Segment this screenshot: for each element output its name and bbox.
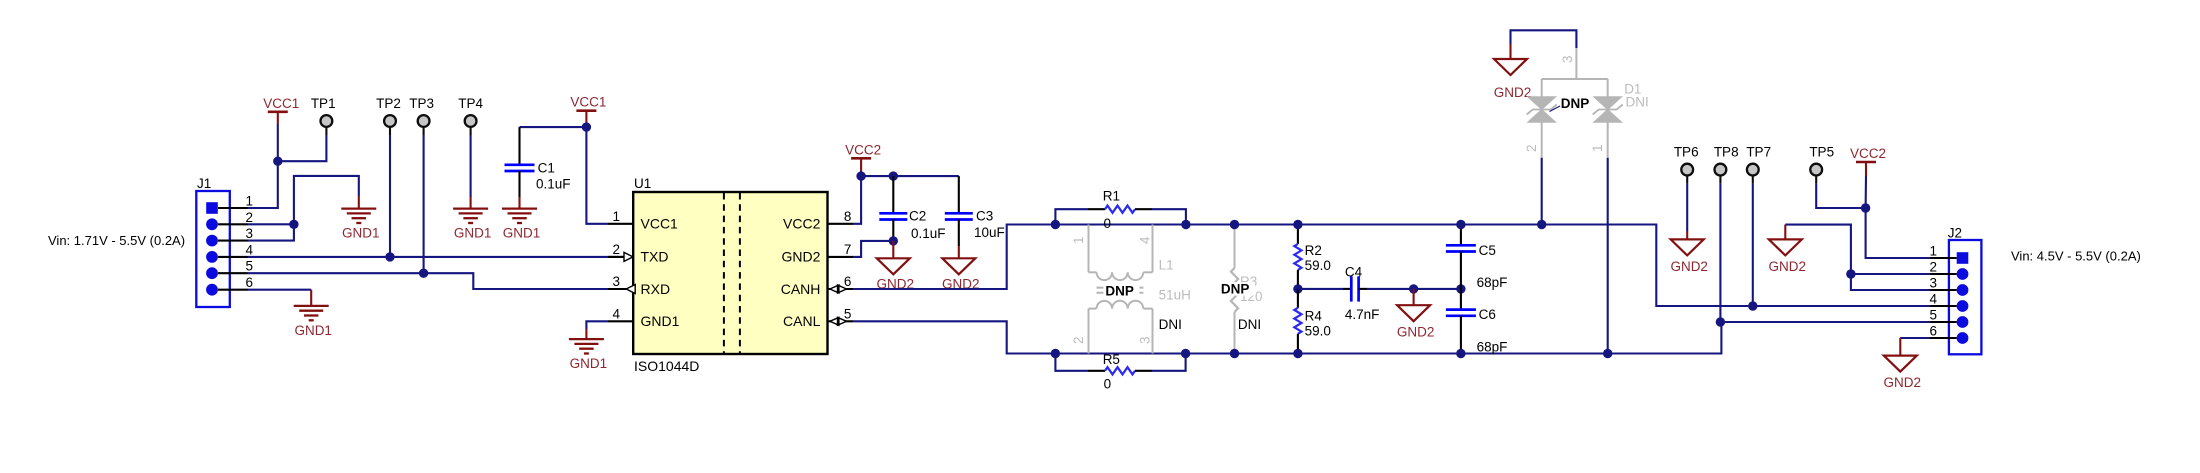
R5 right pin xyxy=(1135,370,1152,372)
D1 pin number 3 xyxy=(1560,55,1575,63)
junction C5/C6 midpoint xyxy=(1456,284,1465,293)
junction bottom rail / R5 right xyxy=(1181,349,1190,358)
U1 CANH bidir arrow xyxy=(830,285,847,293)
J2 pin number 1 xyxy=(1929,244,1937,259)
R4 bottom pin xyxy=(1297,334,1299,354)
svg-text:4: 4 xyxy=(1138,236,1153,244)
svg-text:GND1: GND1 xyxy=(342,226,380,241)
svg-text:C4: C4 xyxy=(1345,264,1363,279)
C5 top pin xyxy=(1460,225,1462,246)
R2 bottom pin xyxy=(1297,270,1299,289)
junction top rail / R1 left xyxy=(1051,220,1060,229)
R4 top pin xyxy=(1297,289,1299,308)
svg-text:59.0: 59.0 xyxy=(1305,258,1331,273)
L1 pin number 4 xyxy=(1138,236,1153,244)
GND2 stem (C2) xyxy=(892,241,894,258)
power symbol VCC1 (at C1/U1) xyxy=(576,111,596,124)
ground GND1 (C1) name xyxy=(503,226,541,241)
wire VCC2 stem down xyxy=(1865,176,1868,208)
wire TP3 down to RXD net xyxy=(423,135,425,273)
J1 pin 4 round pad xyxy=(206,251,218,263)
C2 bottom pin xyxy=(892,220,894,241)
label D1 refdes xyxy=(1624,82,1641,97)
svg-text:0.1uF: 0.1uF xyxy=(911,226,946,241)
junction split termination node xyxy=(1293,284,1302,293)
svg-text:C6: C6 xyxy=(1479,307,1496,322)
junction C2 bottom / U1 pin7 xyxy=(889,236,898,245)
svg-text:1: 1 xyxy=(1929,244,1937,259)
GND2 stem (D1) xyxy=(1509,44,1511,59)
D1 pin 1 (gray) xyxy=(1607,122,1609,158)
J1 pin number 4 xyxy=(245,242,253,257)
wire TP4 down xyxy=(470,135,472,197)
svg-text:4.7nF: 4.7nF xyxy=(1345,307,1380,322)
connector J2 body xyxy=(1949,240,1982,354)
svg-text:2: 2 xyxy=(1929,260,1937,275)
U1 pin name CANL xyxy=(783,313,821,329)
label R2 value 59.0 xyxy=(1305,258,1331,273)
label C3 refdes xyxy=(976,209,993,224)
svg-text:GND2: GND2 xyxy=(1494,85,1532,100)
wire J1 pin3 up to junction xyxy=(248,224,294,240)
svg-text:0: 0 xyxy=(1104,377,1112,392)
wire VCC2 rail to C2 xyxy=(861,175,893,177)
ground GND2 (C2) name xyxy=(877,277,915,292)
ground GND1 (J1 pin6) xyxy=(294,306,329,320)
J1 pin 2 round pad xyxy=(206,218,218,230)
svg-text:R4: R4 xyxy=(1305,309,1323,324)
wire RXD net J1.5 to U1.3 xyxy=(248,273,627,289)
wire TP6 down xyxy=(1686,184,1688,231)
svg-text:6: 6 xyxy=(844,274,852,289)
svg-text:51uH: 51uH xyxy=(1159,288,1191,303)
junction TP8 / J2 pin5 net xyxy=(1716,317,1725,326)
wire split node to C4 xyxy=(1298,288,1343,290)
GND2 stem (TP6) xyxy=(1686,231,1688,239)
label U1 part number ISO1044D xyxy=(634,358,699,374)
L1 pin number 3 xyxy=(1138,336,1153,344)
svg-text:1: 1 xyxy=(612,209,620,224)
inductor L1 common-mode choke (DNI) xyxy=(1089,225,1153,354)
label R1 refdes xyxy=(1103,189,1120,204)
ground GND2 (J2 pin6) xyxy=(1884,356,1917,372)
svg-text:GND1: GND1 xyxy=(570,356,608,371)
U1 pin name CANH xyxy=(781,281,821,297)
svg-text:GND1: GND1 xyxy=(454,226,492,241)
ground GND1 (J1 pins 2-3) name xyxy=(342,226,380,241)
ground GND2 (J2 pins 2-3) name xyxy=(1769,259,1807,274)
wire junction to J2 pin3 xyxy=(1851,274,1949,290)
J1 pin 5 stub xyxy=(218,272,248,274)
label L1 refdes xyxy=(1159,258,1174,273)
label C1 value 0.1uF xyxy=(536,176,571,191)
test point TP7 xyxy=(1747,164,1759,184)
test point TP2 name xyxy=(376,96,401,111)
junction J2 pin2 / pin3 xyxy=(1846,269,1855,278)
ground GND1 (U1) name xyxy=(570,356,608,371)
power symbol VCC1 (at C1/U1) name xyxy=(570,95,606,110)
svg-text:4: 4 xyxy=(612,306,620,321)
resistor R1 xyxy=(1105,206,1135,213)
ground GND1 (J1 pins 2-3) xyxy=(341,209,376,223)
svg-text:U1: U1 xyxy=(634,176,651,191)
svg-text:1: 1 xyxy=(1590,144,1605,152)
wire VCC1 stem to junction xyxy=(585,124,587,127)
label R4 value 59.0 xyxy=(1305,323,1331,338)
junction bottom rail / D1 xyxy=(1603,349,1612,358)
wire TXD net J1.4 to U1.2 xyxy=(248,256,627,258)
svg-text:R1: R1 xyxy=(1103,189,1120,204)
test point TP8 name xyxy=(1714,145,1739,160)
wire R5 right leg xyxy=(1152,354,1186,371)
C2 top pin xyxy=(892,176,894,213)
svg-text:J1: J1 xyxy=(197,176,211,191)
svg-text:3: 3 xyxy=(1929,276,1937,291)
test point TP3 xyxy=(418,115,430,135)
ground GND2 (D1) name xyxy=(1494,85,1532,100)
svg-text:VCC1: VCC1 xyxy=(641,216,679,232)
ground GND1 (TP4) xyxy=(453,209,488,223)
wire D1 pin3 to GND2 xyxy=(1511,30,1577,48)
power symbol VCC2 (at U1) xyxy=(851,158,871,171)
ground GND1 (C1) xyxy=(502,209,537,223)
wire top rail (CANH bus) xyxy=(1055,225,1949,307)
junction VCC1 / TP1 xyxy=(273,157,282,166)
C1 top pin xyxy=(518,127,520,165)
power symbol VCC2 (at U1) name xyxy=(845,142,881,157)
label L1 value 51uH xyxy=(1159,288,1191,303)
svg-text:3: 3 xyxy=(612,274,620,289)
svg-text:GND2: GND2 xyxy=(781,249,820,265)
svg-text:1: 1 xyxy=(1071,236,1086,244)
svg-text:DNI: DNI xyxy=(1238,317,1261,332)
op-amp U1 body (ISO1044D) xyxy=(633,192,827,354)
ground GND2 (C4 tap) xyxy=(1397,305,1430,321)
svg-text:DNP: DNP xyxy=(1221,282,1250,297)
D1 pin 2 (gray) xyxy=(1541,122,1543,158)
ground GND2 (TP6) xyxy=(1671,239,1704,255)
ground GND1 (U1) xyxy=(569,339,604,353)
J1 pin 1 square pad xyxy=(206,202,218,214)
svg-text:7: 7 xyxy=(844,242,852,257)
junction top rail / R3 xyxy=(1230,220,1239,229)
junction TP5 / VCC2 / J2 pin1 xyxy=(1861,203,1870,212)
test point TP2 xyxy=(384,115,396,135)
J2 pin 3 round pad xyxy=(1957,284,1969,296)
U1 left pin 4 stub xyxy=(608,320,633,322)
svg-text:VCC2: VCC2 xyxy=(783,216,821,232)
C4 left pin xyxy=(1343,288,1351,290)
svg-text:Vin: 1.71V - 5.5V (0.2A): Vin: 1.71V - 5.5V (0.2A) xyxy=(48,233,185,248)
svg-text:3: 3 xyxy=(245,226,253,241)
label J2 refdes xyxy=(1948,226,1962,241)
GND1 stem (C1) xyxy=(518,197,520,209)
test point TP8 xyxy=(1715,164,1727,184)
power symbol VCC2 (at J2) name xyxy=(1850,146,1886,161)
J1 pin 1 stub xyxy=(218,207,248,209)
svg-text:2: 2 xyxy=(612,242,620,257)
diode D1 left TVS pair (DNI) xyxy=(1527,97,1557,122)
label Vin input range xyxy=(48,233,185,248)
ground GND2 (C3) xyxy=(942,258,975,274)
J1 pin 4 stub xyxy=(218,256,248,258)
GND1 stem (J1 pin6) xyxy=(310,290,312,306)
U1 left pin 1 stub xyxy=(608,223,633,225)
label C5 value 68pF xyxy=(1477,275,1508,290)
L1 pin number 1 xyxy=(1071,236,1086,244)
J2 pin 2 stub xyxy=(1930,273,1957,275)
J1 pin 5 round pad xyxy=(206,267,218,279)
J1 pin 2 stub xyxy=(218,223,248,225)
svg-text:TP6: TP6 xyxy=(1674,145,1699,160)
wire R5 left leg xyxy=(1055,354,1088,371)
C6 top pin xyxy=(1460,289,1462,310)
label R5 refdes xyxy=(1103,352,1120,367)
J2 pin number 3 xyxy=(1929,276,1937,291)
R1 left pin xyxy=(1088,208,1105,210)
power symbol VCC1 (at J1) xyxy=(268,112,288,124)
connector J1 body xyxy=(196,191,230,307)
ground GND2 (C4 tap) name xyxy=(1397,325,1435,340)
svg-text:VCC1: VCC1 xyxy=(263,96,299,111)
label C6 value 68pF xyxy=(1477,339,1508,354)
U1 RXD output arrow xyxy=(626,285,635,294)
capacitor C6 xyxy=(1446,310,1476,316)
svg-text:CANH: CANH xyxy=(781,281,821,297)
svg-text:DNP: DNP xyxy=(1561,96,1590,111)
U1 pin number 4 xyxy=(612,306,620,321)
U1 pin name GND2 xyxy=(781,249,820,265)
GND2 stem (C4 tap) xyxy=(1413,289,1415,305)
J2 pin 4 round pad xyxy=(1957,300,1969,312)
svg-text:10uF: 10uF xyxy=(974,225,1005,240)
wire CANL U1.5 to bottom rail xyxy=(854,321,1056,353)
svg-text:VCC1: VCC1 xyxy=(570,95,606,110)
wire TP5 to VCC2 junction xyxy=(1816,184,1865,208)
D1 pin number 2 xyxy=(1524,144,1539,152)
power symbol VCC2 (at J2) xyxy=(1856,162,1876,176)
svg-text:1: 1 xyxy=(245,194,253,209)
U1 pin number 6 xyxy=(844,274,852,289)
svg-text:GND2: GND2 xyxy=(1397,325,1435,340)
wire TP2 down to TXD net xyxy=(389,135,391,257)
svg-text:GND1: GND1 xyxy=(503,226,541,241)
power symbol VCC1 (at J1) name xyxy=(263,96,299,111)
svg-text:3: 3 xyxy=(1138,336,1153,344)
svg-text:C2: C2 xyxy=(909,209,926,224)
label Vout input range xyxy=(2011,249,2141,264)
svg-text:TP5: TP5 xyxy=(1809,145,1834,160)
svg-text:TP2: TP2 xyxy=(376,96,401,111)
label U1 refdes xyxy=(634,176,651,191)
wire VCC2 stem to junction xyxy=(860,171,862,176)
J1 pin number 3 xyxy=(245,226,253,241)
C5 bottom pin xyxy=(1460,252,1462,289)
junction top rail / R2 xyxy=(1293,220,1302,229)
ground GND2 (TP6) name xyxy=(1670,259,1708,274)
svg-text:Vin: 4.5V - 5.5V (0.2A): Vin: 4.5V - 5.5V (0.2A) xyxy=(2011,249,2141,264)
test point TP4 name xyxy=(458,96,483,111)
label R3 value 120 xyxy=(1240,289,1263,304)
J2 pin 4 stub xyxy=(1930,305,1957,307)
label C1 refdes xyxy=(538,161,555,176)
ground GND1 (J1 pin6) name xyxy=(294,323,332,338)
wire TP7 down to CANH/J2.4 xyxy=(1752,184,1754,306)
J2 pin 1 stub xyxy=(1930,257,1957,259)
resistor R4 xyxy=(1294,308,1301,334)
label J1 refdes xyxy=(197,176,211,191)
ground GND1 (TP4) name xyxy=(454,226,492,241)
capacitor C2 xyxy=(879,213,907,219)
label R5 value 0 xyxy=(1104,377,1112,392)
U1 pin name GND1 xyxy=(641,313,680,329)
svg-text:5: 5 xyxy=(1929,308,1937,323)
junction TP3 / J1 pin5 net xyxy=(419,269,428,278)
U1 left pin 2 stub xyxy=(608,256,633,258)
J2 pin number 5 xyxy=(1929,308,1937,323)
svg-text:6: 6 xyxy=(1929,324,1937,339)
C3 top pin xyxy=(958,176,960,213)
junction GND2 tap xyxy=(1409,284,1418,293)
svg-text:GND1: GND1 xyxy=(294,323,332,338)
J2 pin 5 round pad xyxy=(1957,316,1969,328)
ground GND2 (C2) xyxy=(877,258,910,274)
wire VCC2 node to J2 pin1 xyxy=(1866,208,1949,258)
U1 right pin 7 stub xyxy=(828,256,854,258)
svg-text:68pF: 68pF xyxy=(1477,339,1508,354)
R2 top pin xyxy=(1297,225,1299,244)
wire R1 left leg xyxy=(1055,209,1088,224)
wire CANH U1.6 to top rail xyxy=(854,225,1056,290)
U1 pin number 3 xyxy=(612,274,620,289)
svg-text:4: 4 xyxy=(1929,292,1937,307)
label C4 refdes xyxy=(1345,264,1363,279)
wire junction up and over to GND1 xyxy=(294,176,359,224)
wire TP1 to VCC1 junction xyxy=(278,135,327,161)
label R3 DNI note xyxy=(1238,317,1261,332)
U1 left pin 3 stub xyxy=(608,288,633,290)
ground GND2 (J2 pins 2-3) xyxy=(1769,239,1802,255)
U1 pin number 2 xyxy=(612,242,620,257)
wire U1 pin4 to GND1 xyxy=(586,321,608,329)
resistor R2 xyxy=(1294,244,1301,270)
ground GND2 (J2 pin6) name xyxy=(1884,375,1922,390)
capacitor C3 xyxy=(945,213,973,219)
svg-text:GND2: GND2 xyxy=(1769,259,1807,274)
junction bottom rail / R5 left xyxy=(1051,349,1060,358)
svg-text:8: 8 xyxy=(844,209,852,224)
junction VCC1 / C1 / U1 pin1 xyxy=(582,122,591,131)
svg-text:ISO1044D: ISO1044D xyxy=(634,358,699,374)
svg-text:R2: R2 xyxy=(1305,243,1322,258)
wire bottom rail (CANL bus) xyxy=(1055,322,1949,354)
wire D1 pin1 to CANL rail xyxy=(1607,158,1609,354)
GND2 stem (J2 pins 2-3) xyxy=(1784,225,1786,240)
J2 pin number 6 xyxy=(1929,324,1937,339)
test point TP1 name xyxy=(311,96,336,111)
svg-text:TP8: TP8 xyxy=(1714,145,1739,160)
junction C2 top xyxy=(889,171,898,180)
label R4 refdes xyxy=(1305,309,1323,324)
svg-text:C1: C1 xyxy=(538,161,555,176)
J2 pin 6 round pad xyxy=(1957,332,1969,344)
U1 isolation barrier dashed lines xyxy=(724,193,740,353)
U1 pin number 8 xyxy=(844,209,852,224)
J1 pin number 5 xyxy=(245,259,253,274)
svg-text:TP4: TP4 xyxy=(458,96,483,111)
J1 pin number 6 xyxy=(245,275,253,290)
svg-text:2: 2 xyxy=(1524,144,1539,152)
test point TP6 name xyxy=(1674,145,1699,160)
svg-text:68pF: 68pF xyxy=(1477,275,1508,290)
J1 pin 3 round pad xyxy=(206,235,218,247)
U1 right pin 6 stub xyxy=(828,288,854,290)
U1 CANL bidir arrow xyxy=(830,317,847,325)
U1 right pin 8 stub xyxy=(828,223,854,225)
J1 pin number 1 xyxy=(245,194,253,209)
capacitor C4 xyxy=(1351,276,1358,301)
C1 bottom pin xyxy=(518,171,520,197)
D1 top connection bar (gray) xyxy=(1542,79,1608,97)
svg-text:VCC2: VCC2 xyxy=(845,142,881,157)
GND2 stem (C3) xyxy=(958,246,960,258)
svg-text:GND1: GND1 xyxy=(641,313,680,329)
capacitor C1 xyxy=(505,165,535,171)
J1 pin 6 round pad xyxy=(206,284,218,296)
wire J1 pin6 to GND1 xyxy=(248,289,311,291)
svg-text:DNP: DNP xyxy=(1105,284,1134,299)
junction bottom rail / R3 xyxy=(1230,349,1239,358)
L1 pin number 2 xyxy=(1071,336,1086,344)
label R3 DNP note xyxy=(1219,282,1255,297)
ground GND2 (D1) xyxy=(1494,59,1527,75)
label D1 DNI note xyxy=(1626,95,1649,110)
wire J1 pin2 to junction xyxy=(248,223,294,225)
svg-text:C3: C3 xyxy=(976,209,993,224)
label C2 value 0.1uF xyxy=(911,226,946,241)
label C4 value 4.7nF xyxy=(1345,307,1380,322)
wire U1 pin7 to C2 bottom xyxy=(854,241,894,257)
U1 pin name TXD xyxy=(641,249,669,265)
junction bottom rail / C6 xyxy=(1456,349,1465,358)
svg-text:0.1uF: 0.1uF xyxy=(536,176,571,191)
svg-text:CANL: CANL xyxy=(783,313,821,329)
U1 pin name RXD xyxy=(641,281,671,297)
GND1 stem (J1 pins 2-3) xyxy=(358,196,360,209)
junction VCC2 / U1 pin8 xyxy=(856,171,865,180)
R1 right pin xyxy=(1135,208,1152,210)
J2 pin number 4 xyxy=(1929,292,1937,307)
C4 right pin xyxy=(1359,288,1367,290)
U1 pin number 5 xyxy=(844,306,852,321)
GND2 stem (J2 pin6) xyxy=(1899,338,1901,356)
label C6 refdes xyxy=(1479,307,1496,322)
test point TP1 xyxy=(321,115,333,135)
svg-text:5: 5 xyxy=(245,259,253,274)
test point TP6 xyxy=(1681,164,1693,184)
svg-text:59.0: 59.0 xyxy=(1305,323,1331,338)
junction TP7 / J2 pin4 net xyxy=(1748,301,1757,310)
junction J1 pin2 / pin3 / GND1 xyxy=(289,220,298,229)
wire TP8 down to CANL/J2.5 xyxy=(1719,184,1721,322)
svg-text:VCC2: VCC2 xyxy=(1850,146,1886,161)
test point TP4 xyxy=(465,115,477,135)
wire VCC1 down to TP1 junction xyxy=(277,124,279,161)
svg-text:6: 6 xyxy=(245,275,253,290)
junction top rail / R1 right xyxy=(1181,220,1190,229)
junction top rail / D1 xyxy=(1537,220,1546,229)
U1 TXD input arrow xyxy=(624,252,633,261)
